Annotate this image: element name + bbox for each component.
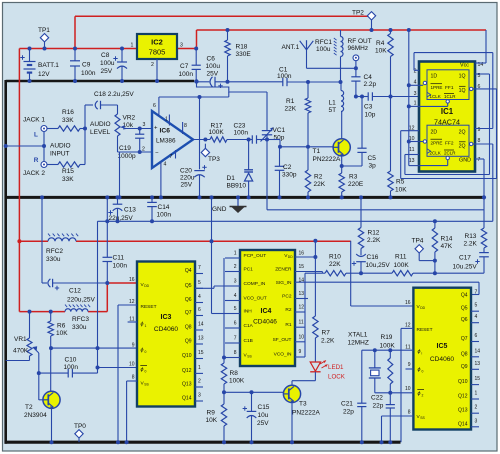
svg-text:C10: C10 (65, 357, 77, 364)
svg-text:LOCK: LOCK (328, 374, 346, 381)
svg-text:10K: 10K (206, 417, 218, 424)
svg-text:330u: 330u (72, 324, 87, 331)
svg-text:1CLR: 1CLR (444, 94, 456, 99)
svg-text:Q13: Q13 (182, 382, 192, 388)
svg-text:Q4: Q4 (185, 268, 192, 274)
IC1 internal CLR wires (419, 105, 448, 107)
svg-text:LEVEL: LEVEL (90, 129, 111, 136)
wire red drop from top rail to battery rail (74, 16, 76, 48)
svg-text:Q6: Q6 (185, 297, 192, 303)
wire IC6 pin6 supply rail (159, 96, 200, 98)
wire T2 emitter to ground bus (51, 408, 53, 442)
svg-text:1Q: 1Q (459, 74, 466, 80)
wire 12V rail through RFC3 (19, 311, 65, 313)
transistor T3 PN2222A (283, 385, 300, 402)
svg-text:22p: 22p (343, 409, 354, 416)
svg-text:DD: DD (144, 284, 149, 288)
counter IC3 CD4060 (137, 262, 195, 407)
svg-text:12: 12 (129, 299, 135, 305)
potentiometer VR2 10k audio level (117, 105, 119, 114)
svg-text:Q9: Q9 (185, 339, 192, 345)
svg-text:LM386: LM386 (156, 138, 176, 145)
svg-text:5: 5 (198, 280, 201, 286)
svg-text:4: 4 (234, 293, 237, 299)
svg-text:15: 15 (475, 376, 481, 382)
svg-text:2CLK: 2CLK (430, 151, 441, 156)
resistor R3 220E (341, 166, 343, 173)
resistor R14 47K (433, 219, 437, 223)
svg-text:R16: R16 (62, 109, 74, 116)
svg-text:14: 14 (475, 348, 481, 354)
ground frame left vertical (4, 80, 7, 444)
svg-text:PC1: PC1 (244, 267, 254, 273)
svg-text:ϕ: ϕ (141, 367, 144, 373)
svg-text:7805: 7805 (149, 48, 166, 57)
svg-text:1: 1 (414, 101, 417, 107)
wire IC5 phi0 stub (406, 368, 414, 370)
svg-text:2D: 2D (431, 130, 438, 136)
capacitor C22 22p (389, 393, 391, 405)
svg-text:96MHz: 96MHz (348, 45, 369, 52)
svg-text:R14: R14 (441, 236, 453, 243)
wire C11 ground riser (106, 197, 108, 257)
svg-text:COMP_IN: COMP_IN (244, 281, 266, 287)
wire IC3 pin11 stub (128, 321, 137, 323)
svg-text:R11: R11 (395, 254, 407, 261)
resistor R9 10K (223, 392, 225, 404)
PLL IC4 CD4046 (240, 250, 295, 366)
svg-text:1000p: 1000p (118, 153, 136, 160)
svg-text:8: 8 (132, 375, 135, 381)
svg-text:1: 1 (131, 43, 134, 49)
wire ground-side jog from C7 node toward VC1 (197, 82, 268, 93)
svg-text:6: 6 (234, 321, 237, 327)
capacitor C9 100n (74, 49, 76, 61)
svg-text:10K: 10K (395, 187, 407, 194)
svg-text:RFC1: RFC1 (315, 39, 332, 46)
capacitor C1 100n coupling (282, 78, 284, 86)
svg-text:7: 7 (478, 157, 481, 163)
svg-text:4: 4 (475, 314, 478, 320)
resistor R17 100K (210, 137, 227, 142)
svg-text:C19: C19 (119, 145, 131, 152)
svg-text:5: 5 (234, 306, 237, 312)
svg-text:10: 10 (299, 334, 305, 340)
resistor R2 22K (305, 170, 310, 192)
svg-text:1: 1 (475, 391, 478, 397)
svg-text:C14: C14 (158, 204, 170, 211)
svg-text:C15: C15 (258, 404, 270, 411)
svg-text:3: 3 (414, 91, 417, 97)
svg-text:ϕ: ϕ (141, 322, 144, 328)
svg-text:100K: 100K (380, 343, 396, 350)
capacitor C20 220u 25V output (194, 170, 204, 172)
resistor R11 100K (392, 271, 413, 276)
wire red left vertical 12V feed (18, 49, 20, 242)
svg-text:25V: 25V (181, 182, 193, 189)
svg-text:2Q: 2Q (459, 144, 466, 150)
wire IC1 pin7 GND to ground bus (475, 158, 484, 160)
capacitor C19 1000p (138, 127, 142, 131)
svg-text:13: 13 (475, 361, 481, 367)
svg-text:10: 10 (129, 362, 135, 368)
svg-text:2.2p: 2.2p (364, 81, 377, 88)
svg-text:3p: 3p (369, 163, 377, 170)
svg-text:7: 7 (198, 265, 201, 271)
svg-text:16: 16 (299, 251, 305, 257)
wire IC1 pin5 1Q to 2CLK pin11 (475, 73, 490, 75)
svg-text:220u,25V: 220u,25V (67, 297, 95, 304)
svg-text:R1: R1 (285, 322, 291, 328)
svg-text:10u: 10u (258, 412, 269, 419)
svg-text:C9: C9 (82, 62, 91, 69)
svg-text:SF_OUT: SF_OUT (273, 337, 292, 343)
svg-text:4: 4 (414, 80, 417, 86)
svg-text:0: 0 (422, 370, 424, 374)
svg-text:CD4046: CD4046 (253, 319, 277, 326)
svg-text:100n: 100n (113, 263, 128, 270)
IC6 pin1 stub (168, 115, 170, 126)
capacitor C2 330p (279, 147, 281, 167)
test point TP3 (204, 144, 206, 149)
wire T3 base network R8 (222, 356, 226, 360)
svg-text:Q4: Q4 (461, 293, 468, 299)
svg-text:330u: 330u (46, 256, 61, 263)
resistor R19 100K (389, 350, 391, 358)
svg-text:9: 9 (478, 127, 481, 133)
svg-text:C2: C2 (283, 164, 292, 171)
svg-text:13: 13 (198, 336, 204, 342)
svg-text:25V: 25V (101, 68, 113, 75)
svg-text:100K: 100K (229, 378, 245, 385)
svg-text:VCO_OUT: VCO_OUT (244, 296, 267, 302)
svg-text:SS: SS (247, 355, 252, 359)
svg-text:TP2: TP2 (352, 10, 364, 17)
svg-text:8: 8 (234, 350, 237, 356)
battery BATT.1 12V (29, 49, 31, 62)
svg-text:C17: C17 (459, 255, 471, 262)
regulator IC2 7805 (137, 34, 177, 59)
svg-text:13: 13 (299, 291, 305, 297)
svg-text:L: L (34, 132, 38, 139)
RF output connector RF OUT 96MHz (353, 55, 359, 61)
svg-text:74AC74: 74AC74 (434, 118, 460, 127)
svg-text:R19: R19 (381, 334, 393, 341)
svg-text:PN2222A: PN2222A (292, 410, 320, 417)
svg-text:T1: T1 (313, 148, 321, 155)
svg-text:2N3904: 2N3904 (24, 412, 47, 419)
capacitor C7 100n (194, 47, 198, 51)
svg-text:Q8: Q8 (461, 351, 468, 357)
svg-text:IC5: IC5 (437, 343, 448, 350)
svg-text:Q8: Q8 (185, 325, 192, 331)
svg-text:IC3: IC3 (161, 314, 172, 321)
svg-text:2CLR: 2CLR (444, 151, 456, 156)
capacitor C15 10u 25V (250, 390, 254, 394)
svg-text:3: 3 (234, 279, 237, 285)
svg-text:100n: 100n (277, 73, 292, 80)
wire antenna to RF-out node (306, 50, 308, 69)
wire pin2 rail down to ground bus (119, 152, 121, 197)
transistor T2 2N3904 (43, 391, 60, 408)
svg-text:DD: DD (288, 255, 293, 259)
svg-text:C1A: C1A (244, 323, 254, 329)
IC4 R2 stub (295, 311, 305, 313)
wire R8 to T3 base (222, 390, 226, 394)
svg-text:R6: R6 (57, 323, 66, 330)
ground bus (bottom horizontal) (5, 441, 401, 444)
svg-text:100n: 100n (81, 70, 96, 77)
svg-text:R12: R12 (368, 230, 380, 237)
IC6 pin8 stub (182, 122, 184, 134)
svg-text:22K: 22K (329, 261, 341, 268)
wire IC1 pin6 1Qbar loop to 2D pin12 (473, 88, 497, 90)
svg-text:16: 16 (129, 277, 135, 283)
svg-text:11: 11 (299, 320, 304, 326)
svg-text:FF2: FF2 (445, 141, 454, 147)
capacitor C3 10p (367, 92, 369, 100)
svg-text:LED1: LED1 (328, 364, 344, 371)
svg-text:T2: T2 (25, 404, 33, 411)
wire IC5 phi-i crystal rail (362, 349, 414, 351)
svg-text:C20: C20 (180, 168, 192, 175)
wire T3 emitter to ground bus (291, 403, 293, 443)
svg-text:C3: C3 (364, 104, 373, 111)
capacitor C17 10u 25V (479, 252, 489, 254)
svg-text:22K: 22K (285, 106, 297, 113)
svg-text:12V: 12V (38, 71, 50, 78)
svg-text:JACK 2: JACK 2 (23, 170, 45, 177)
svg-text:8: 8 (478, 138, 481, 144)
wire IC5 VSS to ground bus (382, 415, 414, 417)
svg-text:R2: R2 (314, 174, 323, 181)
resistor R13 2.2K (483, 197, 485, 228)
capacitor C14 100n (151, 197, 153, 202)
svg-text:Q7: Q7 (185, 310, 192, 316)
wire varactor node to T1 base (267, 139, 280, 141)
svg-text:RFC3: RFC3 (72, 316, 89, 323)
svg-text:TP3: TP3 (208, 156, 220, 163)
svg-text:C12: C12 (69, 288, 81, 295)
wire SIG_IN from IC5 Q4 (295, 281, 479, 283)
svg-text:R18: R18 (236, 44, 248, 51)
capacitor C10 100n (37, 371, 41, 375)
svg-text:GND: GND (212, 206, 227, 213)
svg-text:10K: 10K (56, 330, 68, 337)
svg-text:R13: R13 (465, 233, 477, 240)
svg-text:3: 3 (180, 43, 183, 49)
wire IC4 VCO_IN riser (295, 356, 305, 358)
inductor RFC3 330u (65, 309, 88, 312)
svg-text:1D: 1D (431, 74, 438, 80)
wire C20 supply riser (199, 97, 201, 169)
svg-text:33K: 33K (62, 176, 74, 183)
wire oscillator clock line to divider (356, 96, 368, 98)
svg-text:XTAL1: XTAL1 (348, 332, 368, 339)
svg-text:VC1: VC1 (273, 127, 286, 134)
capacitor C21 22p (357, 402, 366, 404)
svg-text:12: 12 (299, 305, 305, 311)
svg-text:R2: R2 (285, 307, 291, 313)
svg-text:6: 6 (198, 307, 201, 313)
svg-text:1Q: 1Q (459, 88, 466, 94)
loop filter node wire (359, 271, 363, 275)
resistor R5 10K (390, 97, 392, 172)
wire T1 collector to L1 (341, 112, 343, 140)
svg-text:AUDIO: AUDIO (90, 121, 111, 128)
svg-text:25V: 25V (207, 71, 219, 78)
capacitor C5 3p feedback (361, 97, 363, 149)
inductor RFC2 330u (48, 238, 76, 241)
wire IC3 VSS to ground (127, 380, 137, 382)
svg-text:7: 7 (475, 290, 478, 296)
svg-text:IC2: IC2 (151, 38, 163, 47)
resistor R16 33K (47, 128, 58, 130)
wire Vcc riser to PRE/CLR pins (408, 30, 410, 166)
IC6 pin4 to ground bus (160, 162, 162, 197)
wire 12V rail through RFC2 (19, 240, 48, 242)
wire IC2 pin2 to ground (156, 59, 158, 81)
svg-text:BATT.1: BATT.1 (38, 62, 59, 69)
svg-text:25V: 25V (257, 420, 269, 427)
wire red left vertical to RFC3 row (18, 241, 20, 311)
svg-text:IC4: IC4 (261, 308, 272, 315)
resistor R10 22K (295, 271, 322, 273)
wire +12V top rail (75, 15, 372, 17)
svg-text:2.2K: 2.2K (464, 241, 478, 248)
svg-text:Q6: Q6 (461, 317, 468, 323)
LED1 LOCK indicator (310, 362, 320, 371)
IC4 R1 stub (295, 326, 305, 328)
svg-text:1CLK: 1CLK (430, 94, 441, 99)
svg-text:RESET: RESET (141, 304, 157, 310)
svg-text:C22: C22 (371, 395, 383, 402)
wire T1 emitter node (341, 156, 343, 166)
wire IC3 Q5 to IC4 COMP_IN (195, 287, 214, 289)
svg-text:1: 1 (165, 117, 168, 123)
potentiometer VR1 470K (28, 310, 32, 314)
svg-text:CD4060: CD4060 (430, 356, 455, 363)
svg-text:BB910: BB910 (227, 183, 247, 190)
svg-text:50p: 50p (274, 135, 285, 142)
svg-text:Q10: Q10 (182, 353, 192, 359)
svg-text:0: 0 (145, 370, 147, 374)
capacitor C23 100n (251, 135, 253, 143)
wire crystal bottom to IC5 pin10 (375, 392, 414, 394)
svg-text:100u: 100u (100, 60, 115, 67)
svg-text:220E: 220E (348, 181, 364, 188)
svg-text:2: 2 (234, 264, 237, 270)
resistor R7 2.2K (313, 255, 317, 259)
svg-text:6: 6 (153, 103, 156, 109)
svg-text:12: 12 (405, 323, 411, 329)
flip-flop IC1 74AC74 (419, 62, 475, 172)
wire IC6 pin2 rail (118, 151, 153, 153)
svg-text:1: 1 (198, 365, 201, 371)
svg-text:3: 3 (143, 122, 146, 128)
wire IC4 PCP_OUT pin1 down to R8 chain (223, 258, 225, 358)
svg-text:2.2K: 2.2K (321, 338, 335, 345)
svg-text:7: 7 (170, 154, 173, 160)
capacitor C11 100n (103, 256, 113, 258)
svg-text:D1: D1 (227, 175, 236, 182)
capacitor C16 10u 25V (356, 261, 366, 263)
svg-text:C6: C6 (207, 56, 216, 63)
svg-text:SS: SS (420, 416, 425, 420)
svg-text:11: 11 (409, 147, 414, 153)
svg-text:10u.25V: 10u.25V (453, 264, 478, 271)
IC6 pin6 supply stub (158, 97, 160, 116)
svg-text:9: 9 (299, 349, 302, 355)
wire 12V end to IC5 VDD (350, 241, 352, 306)
svg-text:3: 3 (475, 418, 478, 424)
resistor R18 330E (226, 28, 230, 32)
svg-text:C23: C23 (234, 123, 246, 130)
svg-text:CD4060: CD4060 (154, 326, 179, 333)
capacitor C4 2.2p (355, 68, 357, 77)
svg-text:R10: R10 (329, 254, 341, 261)
wire IC1 pin2 1D from 2Q pin9 (414, 69, 419, 71)
svg-text:+: + (154, 126, 158, 132)
svg-text:14: 14 (299, 278, 305, 284)
svg-text:100u: 100u (316, 46, 331, 53)
wire IC1 Vcc pin14 to 5V rail (475, 62, 486, 64)
svg-text:330p: 330p (282, 172, 297, 179)
svg-text:FF1: FF1 (445, 85, 454, 91)
op-amp IC6 LM386 amplifier triangle (152, 111, 193, 168)
svg-text:10p: 10p (365, 112, 376, 119)
capacitor C13 22u 25V (117, 197, 119, 204)
IC4 PC2 stub (295, 298, 308, 300)
svg-text:L1: L1 (329, 100, 337, 107)
counter IC5 CD4060 (413, 288, 471, 430)
svg-text:RF OUT: RF OUT (348, 38, 372, 45)
svg-text:16: 16 (405, 300, 411, 306)
svg-text:INPUT: INPUT (50, 151, 70, 158)
wire IC5 RESET to ground end (401, 327, 413, 329)
svg-text:33K: 33K (62, 117, 74, 124)
svg-text:R3: R3 (349, 174, 358, 181)
wire common signal rail y221 (98, 220, 493, 222)
svg-text:TP0: TP0 (74, 423, 86, 430)
transistor T1 PN2222A oscillator (333, 139, 350, 156)
ground bus (middle horizontal) (5, 196, 485, 199)
svg-text:100K: 100K (209, 129, 225, 136)
wire IC6 pin5 output (193, 139, 210, 141)
svg-text:11: 11 (405, 345, 410, 351)
inductor RFC1 100u (340, 30, 342, 37)
svg-text:100n: 100n (234, 130, 249, 137)
svg-text:220u: 220u (180, 175, 195, 182)
svg-text:C11: C11 (113, 255, 125, 262)
svg-text:2: 2 (142, 147, 145, 153)
svg-text:INH: INH (244, 309, 253, 315)
wire R6 node to IC3 pin9 (51, 347, 137, 349)
wire IC1 pin12 2D from 1Qbar (401, 130, 419, 132)
svg-text:1: 1 (145, 324, 147, 328)
wire IC1 pin8 2Qbar down to common rail (473, 143, 493, 145)
svg-text:RFC2: RFC2 (46, 248, 63, 255)
svg-text:Vcc: Vcc (460, 63, 469, 69)
svg-text:DD: DD (420, 306, 425, 310)
wire RFC3 output up to IC3 VDD (106, 283, 108, 312)
svg-text:10u,25V: 10u,25V (366, 262, 391, 269)
varactor D1 BB910 (247, 138, 251, 142)
svg-text:Q13: Q13 (458, 408, 468, 414)
svg-text:9: 9 (132, 343, 135, 349)
wire crystal left branch to C21 (361, 350, 363, 403)
svg-text:2: 2 (475, 405, 478, 411)
